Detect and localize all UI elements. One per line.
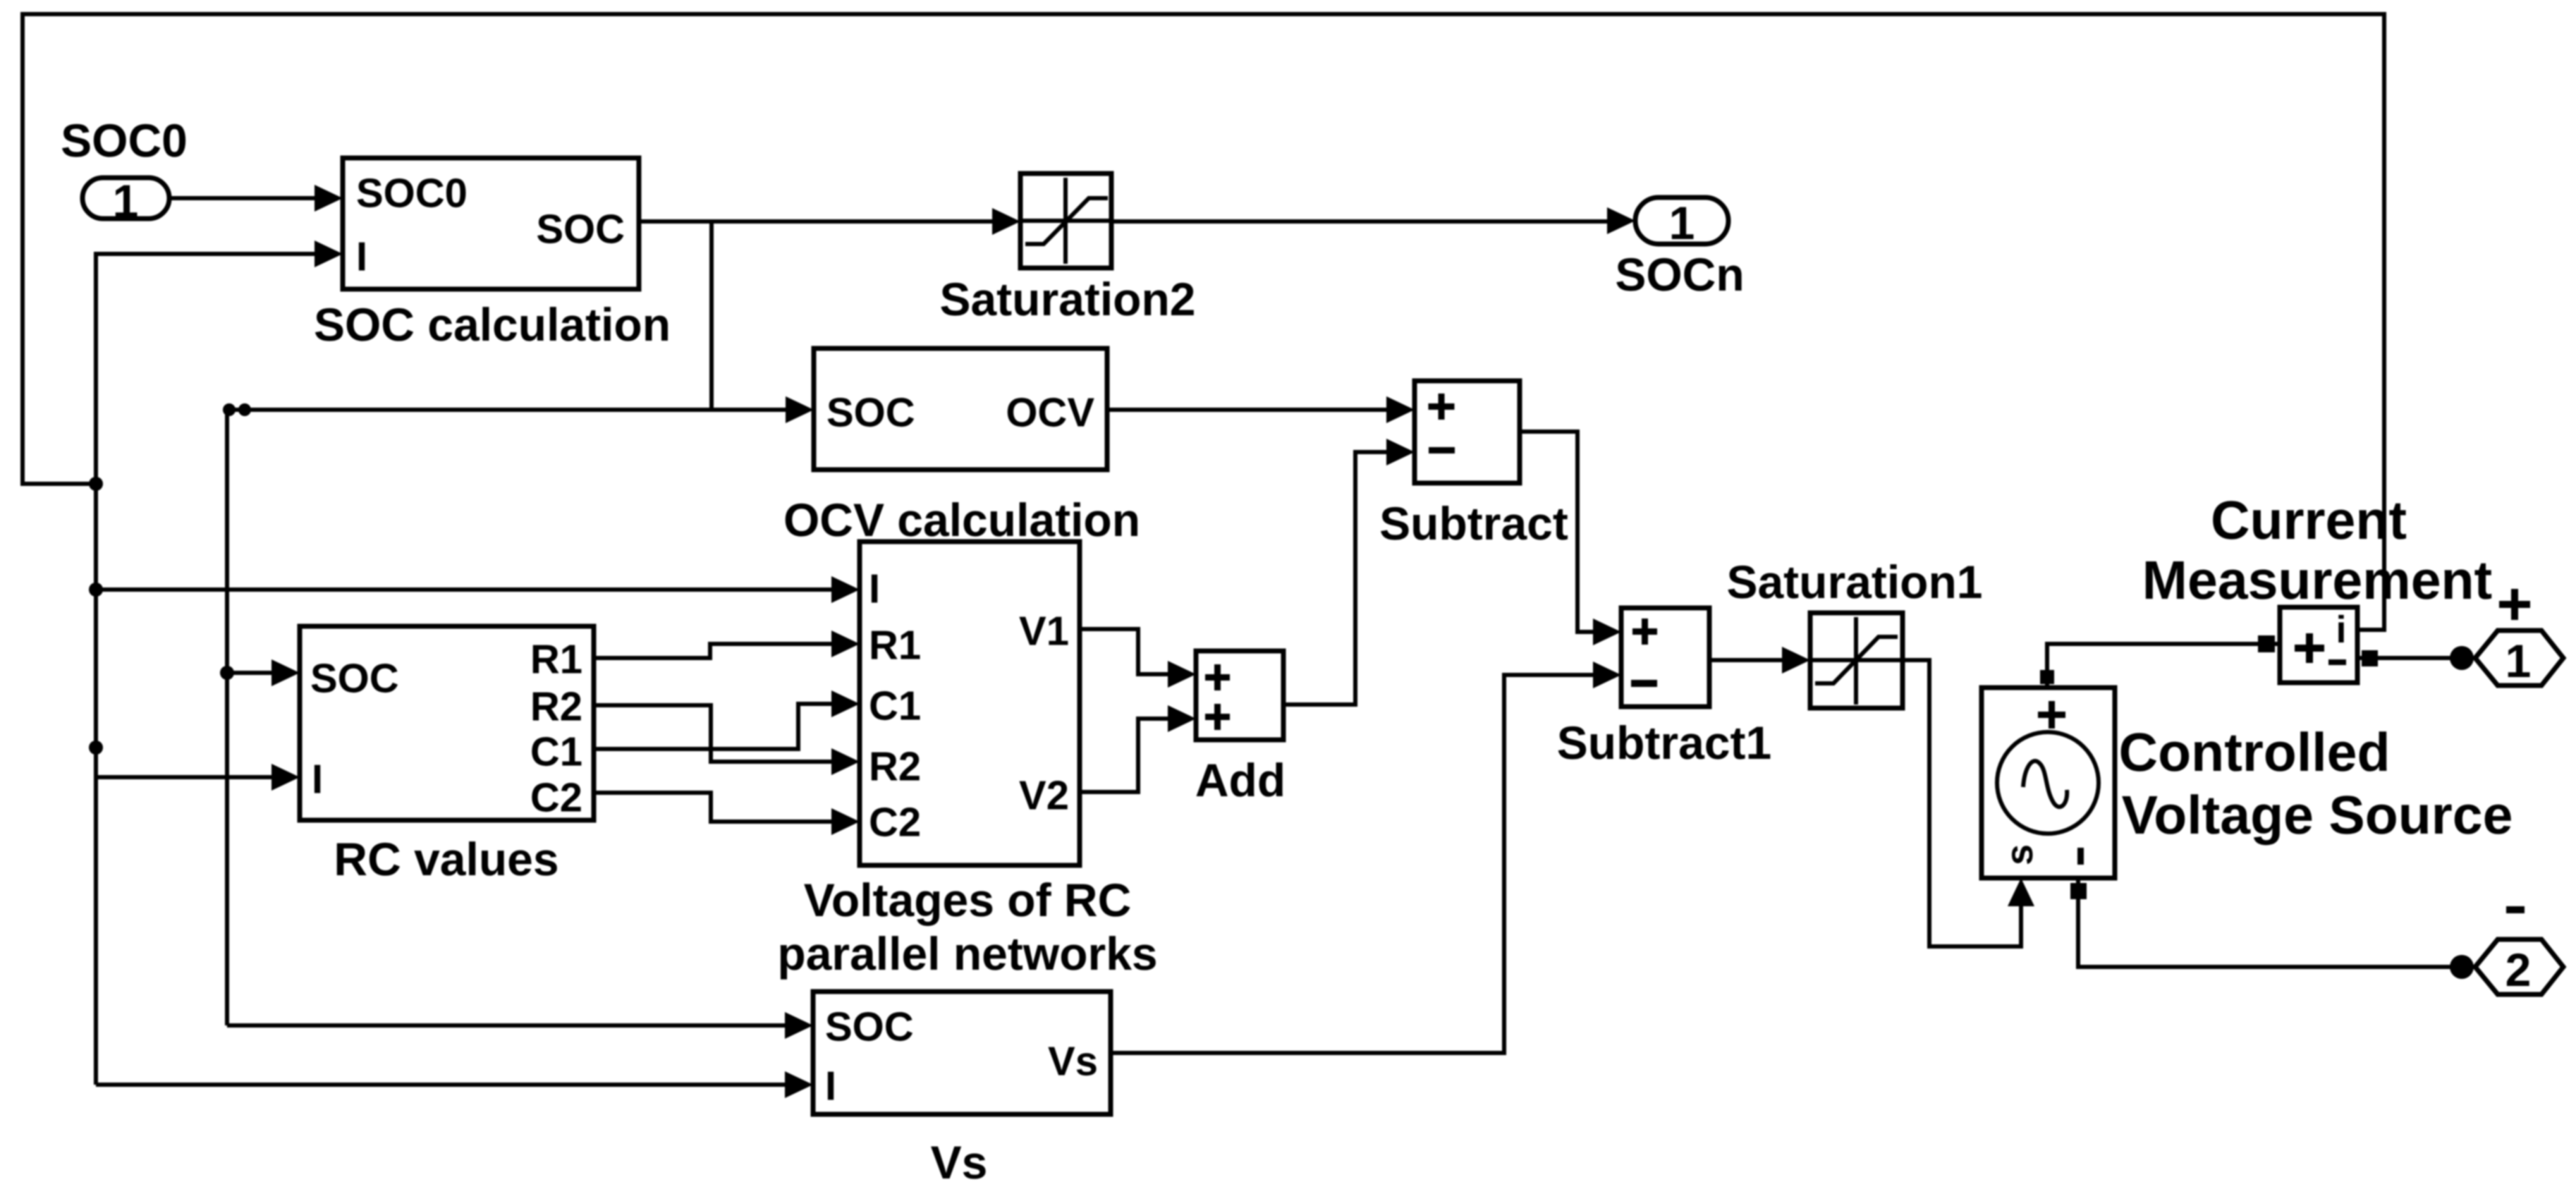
node junction SOC to RC — [220, 666, 234, 680]
block Subtract — [1415, 381, 1520, 483]
wire I to Voltages block — [96, 576, 860, 603]
svg-text:R2: R2 — [530, 684, 582, 730]
svg-text:R2: R2 — [869, 744, 921, 790]
svg-text:C2: C2 — [869, 800, 921, 846]
wire Current Measurement out to port 1 — [2357, 646, 2474, 670]
svg-text:OCV calculation: OCV calculation — [783, 494, 1140, 546]
wire I to RC values — [96, 764, 300, 791]
outport 1 hexagon — [2475, 630, 2563, 687]
node junction I-feedback corner — [89, 477, 103, 491]
label Current Measurement — [2142, 490, 2492, 611]
wire V2 to Add — [1080, 705, 1196, 792]
svg-text:Vs: Vs — [1048, 1039, 1098, 1085]
svg-text:i: i — [2336, 609, 2346, 651]
node junction SOC corner b — [238, 403, 251, 416]
block OCV calculation — [814, 348, 1107, 470]
svg-text:V1: V1 — [1019, 609, 1069, 654]
svg-text:Subtract: Subtract — [1379, 497, 1568, 549]
wire C2 to Voltages C2 — [594, 793, 860, 835]
wire OCV to Subtract plus — [1107, 396, 1415, 423]
wire SOC branch down — [709, 221, 714, 410]
inport SOC0 oval — [83, 175, 169, 227]
svg-text:C1: C1 — [869, 683, 921, 729]
block Saturation1 — [1810, 613, 1903, 708]
outport SOCn oval — [1635, 197, 1728, 249]
svg-text:SOC: SOC — [825, 1004, 914, 1050]
svg-text:V2: V2 — [1019, 773, 1069, 819]
svg-text:1: 1 — [1669, 197, 1695, 249]
svg-text:I: I — [356, 234, 367, 280]
wire C1 to Voltages C1 — [594, 690, 860, 749]
svg-text:Add: Add — [1195, 754, 1286, 806]
wire R1 to Voltages R1 — [594, 630, 860, 658]
svg-text:I: I — [869, 566, 880, 612]
wire Subtract to Subtract1 plus — [1520, 432, 1621, 645]
wire I to Vs block — [96, 1071, 813, 1098]
label Voltages of RC parallel networks — [777, 874, 1157, 980]
outport 2 hexagon — [2475, 939, 2563, 996]
block Current Measurement — [2280, 607, 2357, 683]
wire Vs to Subtract1 minus — [1111, 662, 1621, 1053]
block Saturation2 — [1020, 173, 1111, 268]
wire SOC output to Saturation2 — [639, 208, 1020, 235]
wire Add to Subtract minus — [1283, 439, 1415, 705]
block Vs — [813, 992, 1111, 1114]
block RC values — [300, 626, 594, 821]
wire Saturation1 to CVS s input — [1903, 660, 2034, 946]
svg-text:SOCn: SOCn — [1615, 248, 1744, 300]
svg-text:SOC calculation: SOC calculation — [314, 298, 671, 351]
svg-text:2: 2 — [2505, 944, 2532, 996]
svg-text:SOC: SOC — [310, 656, 399, 702]
svg-text:Controlled: Controlled — [2119, 722, 2391, 783]
wire Saturation2 to SOCn — [1111, 207, 1635, 234]
svg-text:Subtract1: Subtract1 — [1557, 717, 1771, 769]
svg-text:Saturation2: Saturation2 — [939, 273, 1195, 325]
svg-text:C1: C1 — [530, 729, 582, 775]
svg-text:OCV: OCV — [1006, 390, 1094, 436]
svg-text:1: 1 — [2505, 635, 2532, 687]
svg-text:Current: Current — [2211, 490, 2407, 551]
node junction SOC corner — [223, 403, 236, 416]
svg-text:parallel networks: parallel networks — [777, 927, 1157, 980]
block Subtract1 — [1621, 608, 1709, 707]
svg-text:SOC: SOC — [536, 207, 625, 252]
label minus port 2 — [2506, 906, 2525, 913]
wire SOC0 inport to SOC calculation — [169, 185, 343, 212]
wire CVS plus to Current Measurement — [2040, 635, 2280, 688]
wire R2 to Voltages R2 — [594, 705, 860, 775]
svg-text:R1: R1 — [530, 637, 582, 683]
svg-text:1: 1 — [113, 175, 139, 227]
wire CVS minus to port 2 — [2070, 878, 2474, 979]
wire SOC to OCV calculation — [227, 396, 814, 423]
svg-text:Saturation1: Saturation1 — [1726, 556, 1982, 608]
svg-text:Voltage Source: Voltage Source — [2122, 785, 2513, 846]
label Controlled Voltage Source — [2119, 722, 2513, 846]
node junction I branch — [89, 583, 103, 597]
block Add — [1196, 651, 1283, 740]
block SOC calculation — [343, 158, 639, 289]
svg-text:Measurement: Measurement — [2142, 550, 2492, 611]
svg-text:I: I — [825, 1064, 836, 1109]
svg-text:C2: C2 — [530, 775, 582, 821]
wire SOC to Vs — [227, 1012, 813, 1039]
block Controlled Voltage Source — [1982, 688, 2115, 878]
wire SOC to RC values — [227, 659, 300, 686]
wire SOC vertical branch — [225, 410, 229, 1025]
svg-text:Voltages of RC: Voltages of RC — [804, 874, 1131, 926]
svg-text:SOC0: SOC0 — [356, 171, 468, 217]
label plus port 1 — [2499, 589, 2530, 620]
svg-text:R1: R1 — [869, 623, 921, 669]
wire V1 to Add — [1080, 629, 1196, 688]
svg-text:Vs: Vs — [931, 1136, 988, 1182]
svg-text:RC values: RC values — [334, 833, 558, 885]
svg-text:SOC0: SOC0 — [61, 114, 188, 166]
svg-text:I: I — [312, 757, 323, 803]
block Voltages of RC parallel networks — [860, 542, 1080, 865]
svg-text:SOC: SOC — [826, 390, 915, 436]
node junction I branch lower — [89, 741, 103, 755]
wire Subtract1 to Saturation1 — [1709, 647, 1810, 674]
